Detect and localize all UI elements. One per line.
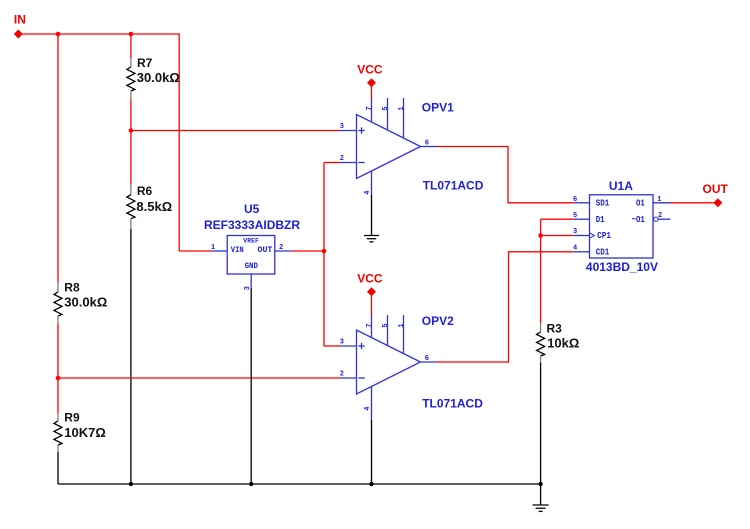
svg-text:R9: R9 (64, 411, 80, 425)
wire VCC to OPV1 pin 7 (371, 87, 373, 99)
wire vertical U5 OUT net (323, 163, 325, 347)
svg-text:REF3333AIDBZR: REF3333AIDBZR (204, 218, 300, 232)
svg-text:1: 1 (398, 106, 406, 110)
resistor R8 (54, 281, 107, 324)
svg-text:5: 5 (382, 323, 390, 327)
svg-text:7: 7 (366, 323, 374, 327)
VCC terminal diamond (OPV1) (367, 78, 376, 87)
node IN terminal diamond (14, 30, 23, 39)
svg-text:CD1: CD1 (596, 247, 610, 257)
svg-text:TL071ACD: TL071ACD (423, 179, 484, 193)
op-amp OPV2 (340, 315, 429, 420)
pin 1 stub U5 VIN (212, 250, 228, 252)
junction D1/CP1 (538, 233, 543, 238)
wire OPV2 output to U1A CD1 (437, 252, 574, 362)
wire OPV2 pin 4 to ground rail (371, 420, 373, 484)
wire blue stub OPV1 plus (340, 130, 357, 132)
ground symbol OPV1 (364, 195, 379, 242)
svg-text:D1: D1 (596, 215, 605, 225)
wire IN to U5 VIN (179, 250, 211, 252)
svg-text:4: 4 (573, 245, 577, 253)
svg-text:IN: IN (14, 12, 26, 26)
wire VCC to OPV2 pin 7 (371, 296, 373, 315)
resistor R7 (127, 56, 180, 100)
wire OPV1 output stub (421, 146, 438, 148)
wire node R7/R6 to OPV1 plus input (131, 130, 340, 132)
wire blue stub CP1 (574, 235, 590, 237)
wire R9 bottom to ground rail (57, 452, 59, 484)
node OUT terminal diamond (713, 198, 722, 207)
svg-text:O1: O1 (636, 198, 645, 208)
svg-text:TL071ACD: TL071ACD (422, 397, 483, 411)
svg-text:CP1: CP1 (597, 231, 611, 241)
svg-text:R8: R8 (64, 281, 80, 295)
wire U5 OUT to vertical (291, 250, 324, 252)
junction R8/R9/OPV2- (56, 376, 61, 381)
wire O1 to OUT (670, 202, 713, 204)
wire R7 bottom to R6 top (130, 100, 132, 185)
wire D1 net from R3 (541, 218, 574, 220)
svg-text:SD1: SD1 (596, 198, 610, 208)
wire OPV1 output to U1A SD1 (437, 147, 574, 203)
svg-text:7: 7 (366, 106, 374, 110)
junction on top rail at x=130.9 (129, 32, 134, 37)
IC U1A body (590, 195, 659, 258)
svg-text:30.0kΩ: 30.0kΩ (64, 295, 107, 310)
wire CP1 from junction (541, 235, 574, 237)
pin 2 stub U1A ~O1 (658, 218, 670, 220)
wire top rail IN (18, 33, 179, 35)
junction ground rail x=540.6 (538, 482, 542, 486)
junction U5 OUT net (322, 249, 327, 254)
junction ground rail x=130.9 (129, 482, 133, 486)
pin 3 stub U5 GND (250, 274, 252, 288)
svg-text:3: 3 (340, 338, 344, 346)
svg-text:2: 2 (340, 155, 344, 163)
svg-text:10K7Ω: 10K7Ω (64, 425, 106, 440)
wire blue stub OPV1 minus (340, 162, 357, 164)
junction R7/R6/OPV1+ (129, 128, 134, 133)
svg-text:4013BD_10V: 4013BD_10V (586, 260, 658, 274)
svg-text:OUT: OUT (258, 245, 273, 255)
svg-text:OUT: OUT (703, 182, 729, 196)
svg-text:4: 4 (364, 191, 372, 195)
wire R6 bottom to ground rail (130, 229, 132, 484)
resistor R3 (537, 322, 580, 363)
svg-text:3: 3 (340, 123, 344, 131)
wire ground rail (58, 483, 541, 485)
svg-text:~O1: ~O1 (632, 215, 646, 225)
wire IN right branch down to U5 (178, 33, 180, 251)
wire IN left branch down to R8 (57, 34, 59, 283)
svg-text:8.5kΩ: 8.5kΩ (136, 199, 172, 214)
wire OPV2 output stub (421, 361, 438, 363)
wire blue stub SD1 (574, 202, 590, 204)
wire blue stub OPV2 plus (340, 345, 357, 347)
junction on top rail at x=58 (56, 32, 61, 37)
svg-text:10kΩ: 10kΩ (547, 336, 579, 351)
svg-text:VIN: VIN (231, 245, 244, 255)
svg-text:1: 1 (211, 244, 215, 252)
wire IN to R7 (130, 34, 132, 58)
wire blue stub OPV2 minus (340, 377, 357, 379)
IC U5 body (227, 236, 275, 275)
wire R8 bottom to R9 top (57, 324, 59, 414)
svg-text:2: 2 (340, 370, 344, 378)
svg-text:5: 5 (382, 106, 390, 110)
svg-text:VCC: VCC (357, 62, 383, 76)
svg-text:U1A: U1A (609, 179, 633, 193)
svg-text:R6: R6 (137, 184, 153, 198)
svg-text:R7: R7 (137, 56, 153, 70)
wire OPV2 plus from vertical (324, 345, 340, 347)
junction ground rail x=371.5 (369, 482, 373, 486)
svg-text:4: 4 (364, 407, 372, 411)
svg-text:2: 2 (279, 244, 283, 252)
svg-text:1: 1 (398, 323, 406, 327)
wire U5 GND to ground rail (250, 288, 252, 484)
op-amp OPV1 (340, 98, 429, 195)
svg-text:VREF: VREF (243, 238, 259, 245)
svg-text:6: 6 (573, 196, 577, 204)
svg-text:OPV2: OPV2 (422, 314, 454, 328)
wire OPV1 minus to vertical feedback (324, 162, 340, 164)
wire blue stub CD1 (574, 251, 590, 253)
VCC terminal diamond (OPV2) (367, 287, 376, 296)
svg-text:R3: R3 (547, 322, 563, 336)
wire vertical D1/CP1/R3 (540, 219, 542, 323)
svg-text:5: 5 (573, 212, 577, 220)
wire blue stub D1 (574, 218, 590, 220)
resistor R9 (54, 411, 106, 453)
resistor R6 (127, 184, 172, 229)
junction ground rail x=251.2 (249, 482, 253, 486)
svg-text:GND: GND (245, 261, 258, 271)
wire node R8/R9 to OPV2 minus input (58, 377, 340, 379)
svg-text:U5: U5 (244, 202, 260, 216)
svg-text:30.0kΩ: 30.0kΩ (137, 70, 180, 85)
svg-text:3: 3 (573, 228, 577, 236)
wire R3 bottom to ground rail (540, 363, 542, 484)
svg-text:VCC: VCC (357, 271, 383, 285)
pin 1 stub U1A O1 (653, 202, 670, 204)
ground symbol (main) (533, 484, 549, 511)
pin 2 stub U5 OUT (275, 250, 292, 252)
svg-text:OPV1: OPV1 (422, 100, 454, 114)
